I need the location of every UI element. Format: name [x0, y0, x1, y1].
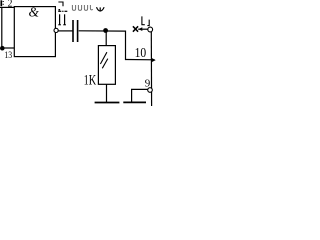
svg-text:2: 2 — [8, 0, 13, 9]
svg-text:1K: 1K — [84, 72, 97, 88]
svg-text:9: 9 — [145, 77, 151, 89]
svg-text:&: & — [29, 4, 40, 19]
svg-text:10: 10 — [135, 46, 147, 61]
svg-text:13: 13 — [4, 51, 12, 61]
